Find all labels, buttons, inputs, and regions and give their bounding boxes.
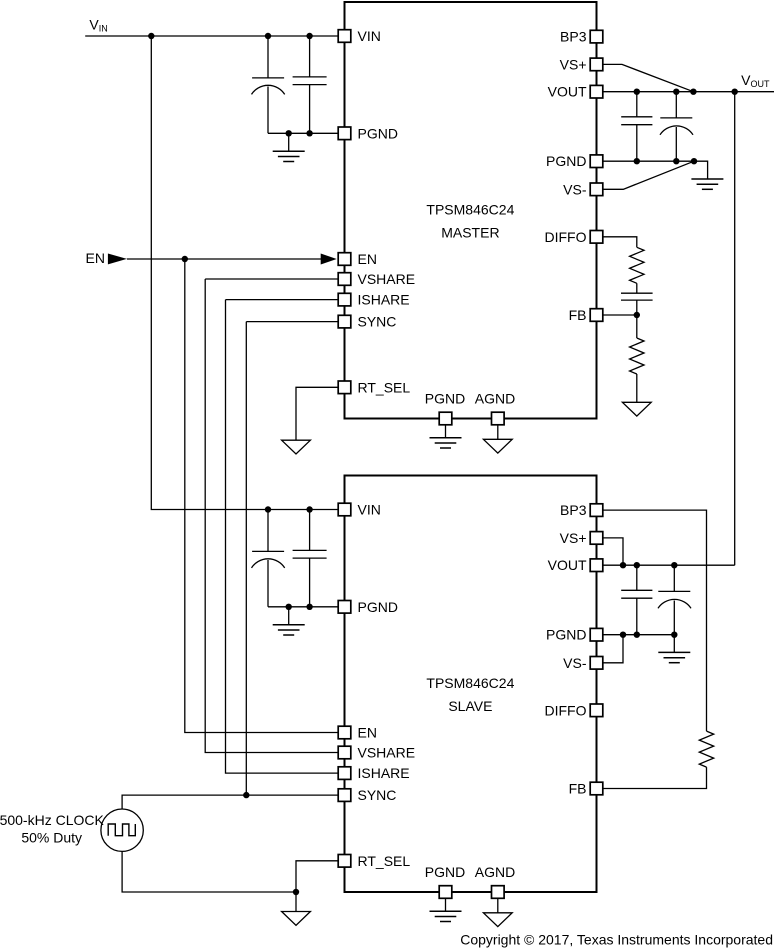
svg-text:SLAVE: SLAVE [448,698,492,714]
svg-text:EN: EN [86,250,105,266]
svg-text:50% Duty: 50% Duty [21,830,82,846]
svg-text:VIN: VIN [89,16,107,33]
svg-text:Copyright © 2017, Texas Instru: Copyright © 2017, Texas Instruments Inco… [460,932,773,948]
svg-text:500-kHz CLOCK: 500-kHz CLOCK [0,812,104,828]
svg-text:MASTER: MASTER [441,225,499,241]
svg-text:VOUT: VOUT [741,72,770,89]
